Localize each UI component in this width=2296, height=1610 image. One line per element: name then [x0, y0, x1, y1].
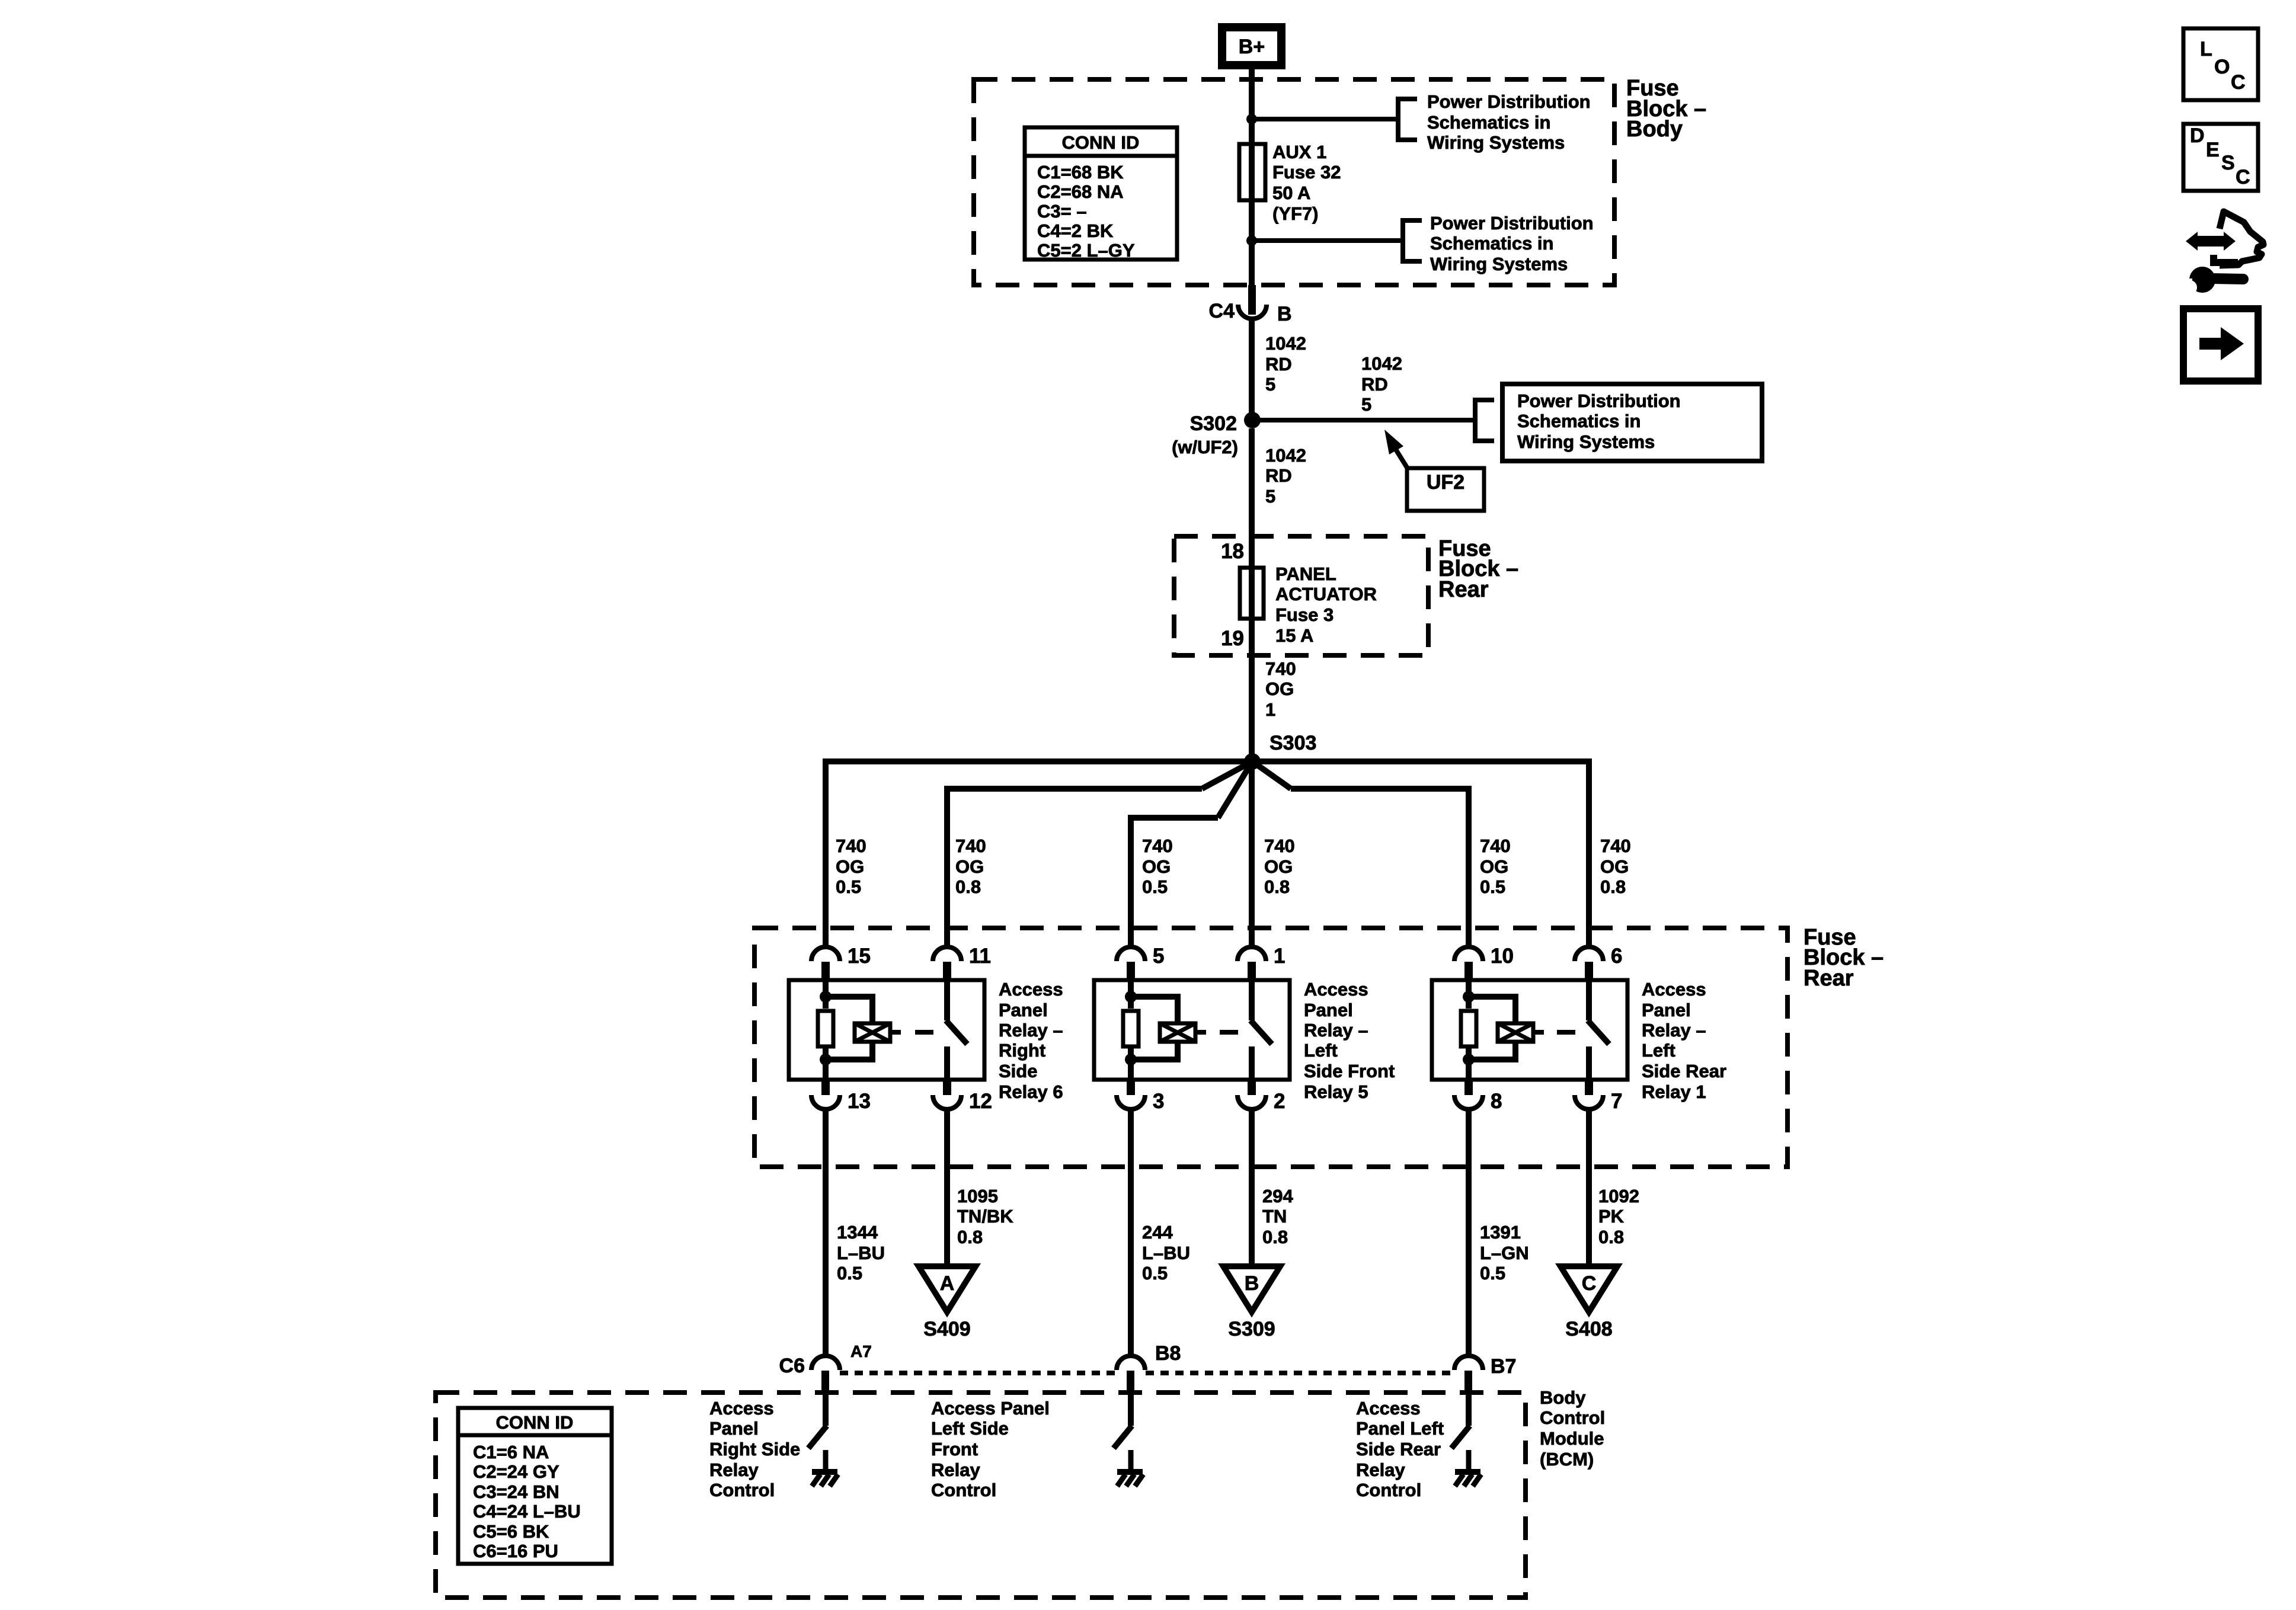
svg-text:12: 12 — [969, 1090, 992, 1113]
coil loop wires (relay Left Side Front Relay 5) — [1131, 994, 1178, 1000]
icon vehicle step bar — [2210, 255, 2217, 266]
coil loop wires (relay Right Side Relay 6) — [826, 994, 872, 1000]
icon vehicle outline — [2220, 212, 2263, 265]
svg-text:C6: C6 — [779, 1355, 805, 1377]
svg-text:OG: OG — [1142, 856, 1171, 877]
off-page triangle A — [919, 1266, 976, 1312]
wire branch 3 (to pin 5) — [1218, 761, 1252, 818]
BCM switch (left side rear relay control) — [1466, 1393, 1472, 1426]
svg-text:Left Side: Left Side — [931, 1418, 1009, 1439]
svg-text:L: L — [2200, 38, 2212, 60]
svg-text:Rear: Rear — [1438, 577, 1489, 602]
svg-text:0.8: 0.8 — [955, 876, 981, 897]
solenoid X-box (relay Right Side Relay 6) — [855, 1023, 890, 1042]
connector pin 3 (relay Left Side Front Relay 5) — [1127, 1080, 1135, 1095]
svg-text:1: 1 — [1274, 945, 1285, 968]
wire to power distribution (lower) — [1252, 238, 1403, 243]
svg-text:OG: OG — [1480, 856, 1508, 877]
svg-text:S302: S302 — [1190, 412, 1237, 435]
svg-text:Side: Side — [999, 1061, 1037, 1081]
svg-text:C1=6 NA: C1=6 NA — [473, 1442, 549, 1462]
svg-text:C: C — [1582, 1272, 1597, 1295]
connector pin 2 (relay Left Side Front Relay 5) — [1248, 1080, 1256, 1095]
terminal B+ — [1218, 23, 1285, 69]
icon wrench — [2189, 267, 2215, 293]
svg-text:1095: 1095 — [957, 1186, 998, 1206]
wire pin 8 to BCM — [1466, 1109, 1472, 1357]
svg-text:1344: 1344 — [837, 1222, 878, 1243]
junction node coil top (relay Left Side Front Relay 5) — [1125, 991, 1137, 1003]
svg-text:10: 10 — [1491, 945, 1514, 968]
wire B+ to fuse block body — [1249, 69, 1255, 285]
wire C4 to S302 — [1249, 319, 1255, 420]
svg-text:Panel: Panel — [709, 1418, 759, 1439]
svg-text:Power Distribution: Power Distribution — [1427, 91, 1591, 112]
relay control dashed link (relay Left Side Rear Relay 1) — [1535, 1030, 1544, 1035]
fuse block body dashed box — [974, 79, 1614, 285]
svg-text:OG: OG — [1264, 856, 1293, 877]
svg-text:Panel Left: Panel Left — [1356, 1418, 1444, 1439]
svg-text:0.5: 0.5 — [1142, 876, 1168, 897]
svg-text:740: 740 — [1264, 836, 1295, 856]
box Power Distribution Schematics (S302 branch) — [1502, 384, 1762, 461]
fuse block rear dashed box (panel actuator) — [1174, 536, 1428, 655]
svg-text:C2=68 NA: C2=68 NA — [1037, 181, 1124, 202]
svg-text:1042: 1042 — [1361, 353, 1402, 374]
svg-text:S303: S303 — [1269, 732, 1316, 754]
svg-text:740: 740 — [955, 836, 986, 856]
wire S302 branch to power distribution — [1252, 418, 1475, 422]
connector C4 pin B — [1248, 285, 1256, 315]
svg-text:L–GN: L–GN — [1480, 1243, 1529, 1263]
svg-text:Left: Left — [1304, 1040, 1338, 1061]
ground (right side relay control) — [823, 1450, 829, 1471]
bracket symbol (lower feed) — [1403, 220, 1422, 261]
coil resistor (relay Left Side Rear Relay 1) — [1461, 1011, 1476, 1046]
svg-text:Panel: Panel — [1642, 1000, 1691, 1020]
svg-text:(BCM): (BCM) — [1540, 1449, 1594, 1470]
svg-text:244: 244 — [1142, 1222, 1173, 1243]
svg-text:0.5: 0.5 — [836, 876, 861, 897]
svg-text:740: 740 — [1265, 658, 1296, 679]
svg-text:C1=68 BK: C1=68 BK — [1037, 162, 1124, 183]
coil resistor (relay Left Side Front Relay 5) — [1123, 1011, 1139, 1046]
svg-text:Side Rear: Side Rear — [1642, 1061, 1726, 1081]
svg-text:18: 18 — [1221, 540, 1244, 563]
svg-text:Right: Right — [999, 1040, 1045, 1061]
svg-text:8: 8 — [1491, 1090, 1502, 1113]
svg-text:Body: Body — [1626, 117, 1683, 142]
wire branch 4 (to pin 1) — [1249, 761, 1255, 948]
svg-text:Front: Front — [931, 1439, 978, 1459]
relay Left Side Front Relay 5 box — [1094, 980, 1290, 1080]
switch (relay Left Side Front Relay 5) — [1249, 980, 1255, 1020]
relay control dashed link (relay Left Side Front Relay 5) — [1197, 1030, 1206, 1035]
connector C6 pin A7 (BCM) — [811, 1356, 840, 1370]
svg-text:S309: S309 — [1228, 1318, 1275, 1340]
svg-text:294: 294 — [1262, 1186, 1293, 1206]
connector pin 15 (relay Right Side Relay 6) — [811, 947, 840, 961]
svg-text:5: 5 — [1153, 945, 1164, 968]
svg-text:19: 19 — [1221, 627, 1244, 650]
connector pin 5 (relay Left Side Front Relay 5) — [1117, 947, 1145, 961]
svg-text:O: O — [2214, 56, 2230, 78]
svg-text:RD: RD — [1265, 465, 1292, 486]
wire branch 5 (to pin 10) — [1252, 761, 1291, 789]
svg-text:Relay –: Relay – — [999, 1020, 1063, 1041]
wire pin 12 to S409 — [944, 1109, 950, 1266]
relay Left Side Rear Relay 1 box — [1432, 980, 1627, 1080]
svg-text:Relay 5: Relay 5 — [1304, 1081, 1368, 1102]
svg-text:UF2: UF2 — [1427, 471, 1464, 494]
wire branch 2 (to pin 11) — [1202, 761, 1252, 789]
svg-text:TN: TN — [1262, 1206, 1287, 1227]
svg-text:C3= –: C3= – — [1037, 201, 1087, 222]
icon LOC box — [2183, 28, 2258, 100]
svg-text:C5=6 BK: C5=6 BK — [473, 1521, 549, 1542]
svg-text:740: 740 — [836, 836, 866, 856]
connector pin 6 (relay Left Side Rear Relay 1) — [1575, 947, 1603, 961]
icon arrow box — [2183, 309, 2258, 381]
svg-text:(w/UF2): (w/UF2) — [1172, 437, 1238, 457]
svg-text:C2=24 GY: C2=24 GY — [473, 1461, 559, 1482]
svg-text:13: 13 — [848, 1090, 871, 1113]
svg-text:0.5: 0.5 — [1142, 1263, 1168, 1283]
svg-text:C5=2 L–GY: C5=2 L–GY — [1037, 240, 1135, 261]
junction node coil bottom (relay Left Side Rear Relay 1) — [1463, 1054, 1475, 1065]
svg-text:C4=24 L–BU: C4=24 L–BU — [473, 1501, 581, 1522]
svg-text:Control: Control — [709, 1480, 775, 1500]
connector pin 12 (relay Right Side Relay 6) — [943, 1080, 951, 1095]
svg-text:0.8: 0.8 — [1262, 1227, 1288, 1247]
svg-text:Control: Control — [1540, 1407, 1605, 1428]
svg-text:C4: C4 — [1209, 300, 1235, 322]
fuse AUX 1 Fuse 32 — [1239, 144, 1265, 200]
connector pin B7 (BCM) — [1454, 1356, 1483, 1370]
svg-text:A7: A7 — [850, 1342, 872, 1361]
svg-text:Fuse 3: Fuse 3 — [1275, 604, 1334, 625]
svg-text:Schematics in: Schematics in — [1430, 233, 1553, 254]
bracket symbol (upper feed) — [1398, 99, 1417, 140]
junction node feed 2 — [1246, 235, 1257, 246]
svg-text:TN/BK: TN/BK — [957, 1206, 1013, 1227]
wire pin 13 to BCM — [823, 1109, 829, 1357]
svg-text:A: A — [940, 1272, 955, 1295]
svg-text:Relay: Relay — [931, 1459, 980, 1480]
svg-text:B8: B8 — [1155, 1342, 1181, 1365]
svg-text:PANEL: PANEL — [1275, 564, 1336, 584]
svg-text:Rear: Rear — [1803, 966, 1854, 991]
BCM switch (right side relay control) — [823, 1393, 829, 1426]
svg-text:15: 15 — [848, 945, 871, 968]
connector pin 13 (relay Right Side Relay 6) — [821, 1080, 830, 1095]
connector table CONN ID (BCM) — [458, 1408, 612, 1564]
connector table CONN ID (fuse block body) — [1025, 127, 1177, 260]
svg-text:Relay –: Relay – — [1304, 1020, 1368, 1041]
connector pin B8 (BCM) — [1117, 1356, 1145, 1370]
svg-text:5: 5 — [1361, 394, 1371, 415]
svg-text:2: 2 — [1274, 1090, 1285, 1113]
svg-text:Fuse 32: Fuse 32 — [1272, 162, 1341, 183]
svg-text:Schematics in: Schematics in — [1427, 112, 1550, 133]
svg-text:OG: OG — [1265, 678, 1294, 699]
svg-text:Wiring Systems: Wiring Systems — [1517, 431, 1655, 452]
svg-text:RD: RD — [1265, 354, 1292, 375]
svg-text:Access: Access — [1642, 979, 1706, 1000]
body control module dashed box — [436, 1393, 1526, 1598]
coil loop wires (relay Left Side Rear Relay 1) — [1469, 994, 1515, 1000]
svg-text:L–BU: L–BU — [1142, 1243, 1190, 1263]
svg-text:Relay: Relay — [709, 1459, 759, 1480]
junction node feed 1 — [1246, 114, 1257, 124]
svg-text:0.8: 0.8 — [1264, 876, 1290, 897]
relay Right Side Relay 6 box — [789, 980, 984, 1080]
svg-text:B7: B7 — [1491, 1355, 1516, 1378]
off-page triangle C — [1560, 1266, 1617, 1312]
svg-text:C: C — [2236, 166, 2250, 188]
svg-text:740: 740 — [1142, 836, 1173, 856]
solenoid X-box (relay Left Side Front Relay 5) — [1160, 1023, 1195, 1042]
svg-text:3: 3 — [1153, 1090, 1164, 1113]
connector pin 10 (relay Left Side Rear Relay 1) — [1454, 947, 1483, 961]
svg-text:Left: Left — [1642, 1040, 1675, 1061]
svg-text:Wiring Systems: Wiring Systems — [1430, 254, 1568, 274]
wire branch 6 (to pin 6) — [1252, 758, 1589, 764]
svg-text:CONN ID: CONN ID — [1062, 132, 1140, 153]
svg-text:Side Front: Side Front — [1304, 1061, 1395, 1081]
svg-text:Side Rear: Side Rear — [1356, 1439, 1441, 1459]
wire pin 3 to BCM — [1128, 1109, 1134, 1357]
svg-text:C3=24 BN: C3=24 BN — [473, 1481, 559, 1502]
off-page triangle B — [1223, 1266, 1280, 1312]
coil circuit wire (relay Left Side Rear Relay 1) — [1466, 980, 1472, 1009]
svg-text:0.8: 0.8 — [1598, 1227, 1624, 1247]
fuse PANEL ACTUATOR Fuse 3 — [1240, 568, 1264, 619]
svg-text:0.8: 0.8 — [957, 1227, 983, 1247]
svg-text:15 A: 15 A — [1275, 625, 1313, 646]
svg-text:B: B — [1277, 303, 1292, 325]
svg-text:1092: 1092 — [1598, 1186, 1639, 1206]
svg-text:C4=2 BK: C4=2 BK — [1037, 220, 1114, 241]
svg-text:5: 5 — [1265, 374, 1275, 395]
connector pin 8 (relay Left Side Rear Relay 1) — [1464, 1080, 1473, 1095]
svg-text:Wiring Systems: Wiring Systems — [1427, 132, 1565, 153]
svg-text:S409: S409 — [923, 1318, 970, 1340]
svg-text:0.8: 0.8 — [1600, 876, 1626, 897]
svg-text:1: 1 — [1265, 699, 1275, 720]
svg-text:Right Side: Right Side — [709, 1439, 800, 1459]
svg-text:ACTUATOR: ACTUATOR — [1275, 584, 1377, 604]
wire to power distribution (upper) — [1252, 117, 1398, 121]
svg-text:0.5: 0.5 — [837, 1263, 862, 1283]
svg-text:50 A: 50 A — [1272, 183, 1310, 203]
coil circuit wire (relay Left Side Front Relay 5) — [1128, 980, 1134, 1009]
BCM interconnect dotted line — [840, 1371, 1117, 1375]
coil circuit wire (relay Right Side Relay 6) — [823, 980, 829, 1009]
svg-text:C6=16 PU: C6=16 PU — [473, 1541, 558, 1561]
svg-text:OG: OG — [955, 856, 984, 877]
svg-text:11: 11 — [969, 945, 991, 968]
svg-text:Access: Access — [1356, 1398, 1421, 1419]
svg-text:Access: Access — [709, 1398, 774, 1419]
connector pin 7 (relay Left Side Rear Relay 1) — [1585, 1080, 1593, 1095]
svg-text:Relay –: Relay – — [1642, 1020, 1706, 1041]
svg-text:(YF7): (YF7) — [1272, 203, 1319, 224]
svg-text:B: B — [1245, 1272, 1259, 1295]
svg-text:S: S — [2221, 152, 2235, 174]
svg-text:5: 5 — [1265, 486, 1275, 507]
svg-text:RD: RD — [1361, 374, 1388, 395]
junction node coil top (relay Right Side Relay 6) — [820, 991, 832, 1003]
svg-text:7: 7 — [1611, 1090, 1622, 1113]
junction node coil top (relay Left Side Rear Relay 1) — [1463, 991, 1475, 1003]
solenoid X-box (relay Left Side Rear Relay 1) — [1498, 1023, 1533, 1042]
svg-text:Schematics in: Schematics in — [1517, 411, 1641, 431]
svg-text:Power Distribution: Power Distribution — [1517, 391, 1681, 411]
box UF2 — [1407, 468, 1484, 511]
wire pin 7 to S408 — [1586, 1109, 1592, 1266]
svg-text:Control: Control — [1356, 1480, 1421, 1500]
svg-text:OG: OG — [1600, 856, 1629, 877]
svg-text:Module: Module — [1540, 1428, 1604, 1449]
svg-text:Body: Body — [1540, 1387, 1586, 1408]
icon DESC box — [2183, 124, 2258, 191]
connector pin 1 (relay Left Side Front Relay 5) — [1237, 947, 1266, 961]
junction node coil bottom (relay Right Side Relay 6) — [820, 1054, 832, 1065]
svg-text:6: 6 — [1611, 945, 1622, 968]
svg-text:AUX 1: AUX 1 — [1272, 142, 1326, 162]
svg-text:L–BU: L–BU — [837, 1243, 885, 1263]
switch (relay Left Side Rear Relay 1) — [1586, 980, 1592, 1020]
fuse block rear dashed box (relays) — [754, 928, 1787, 1167]
svg-text:1042: 1042 — [1265, 333, 1306, 354]
svg-text:PK: PK — [1598, 1206, 1625, 1227]
svg-text:740: 740 — [1600, 836, 1631, 856]
wire pin 2 to S309 — [1249, 1109, 1255, 1266]
coil resistor (relay Right Side Relay 6) — [818, 1011, 833, 1046]
svg-text:D: D — [2190, 124, 2205, 147]
svg-text:Access: Access — [1304, 979, 1368, 1000]
svg-text:Panel: Panel — [1304, 1000, 1353, 1020]
splice S303 — [1244, 753, 1261, 770]
ground (left side front relay control) — [1128, 1450, 1134, 1471]
connector pin 11 (relay Right Side Relay 6) — [933, 947, 961, 961]
svg-text:0.5: 0.5 — [1480, 876, 1505, 897]
BCM switch (left side front relay control) — [1128, 1393, 1134, 1426]
svg-text:Relay: Relay — [1356, 1459, 1405, 1480]
svg-text:740: 740 — [1480, 836, 1511, 856]
svg-text:Panel: Panel — [999, 1000, 1048, 1020]
splice S302 — [1244, 412, 1261, 428]
svg-text:Access Panel: Access Panel — [931, 1398, 1050, 1419]
svg-text:C: C — [2231, 71, 2246, 94]
icon vehicle double arrow — [2186, 232, 2236, 251]
svg-text:Relay 6: Relay 6 — [999, 1081, 1063, 1102]
svg-text:Access: Access — [999, 979, 1063, 1000]
relay control dashed link (relay Right Side Relay 6) — [892, 1030, 901, 1035]
svg-text:CONN ID: CONN ID — [496, 1412, 574, 1433]
ground (left side rear relay control) — [1466, 1450, 1472, 1471]
svg-text:OG: OG — [836, 856, 864, 877]
svg-text:B+: B+ — [1239, 36, 1265, 58]
switch (relay Right Side Relay 6) — [944, 980, 950, 1020]
svg-text:S408: S408 — [1565, 1318, 1612, 1340]
svg-text:Power Distribution: Power Distribution — [1430, 213, 1594, 233]
svg-text:1042: 1042 — [1265, 445, 1306, 466]
wire S302 to fuse block rear — [1249, 428, 1255, 761]
wire branch 1 (to pin 15) — [826, 758, 1252, 764]
junction node coil bottom (relay Left Side Front Relay 5) — [1125, 1054, 1137, 1065]
svg-text:Control: Control — [931, 1480, 996, 1500]
svg-text:Relay 1: Relay 1 — [1642, 1081, 1706, 1102]
bracket symbol (S302 branch) — [1475, 400, 1494, 441]
arrow from UF2 to wire — [1396, 450, 1407, 468]
svg-text:E: E — [2206, 139, 2220, 161]
svg-text:0.5: 0.5 — [1480, 1263, 1505, 1283]
svg-text:1391: 1391 — [1480, 1222, 1521, 1243]
